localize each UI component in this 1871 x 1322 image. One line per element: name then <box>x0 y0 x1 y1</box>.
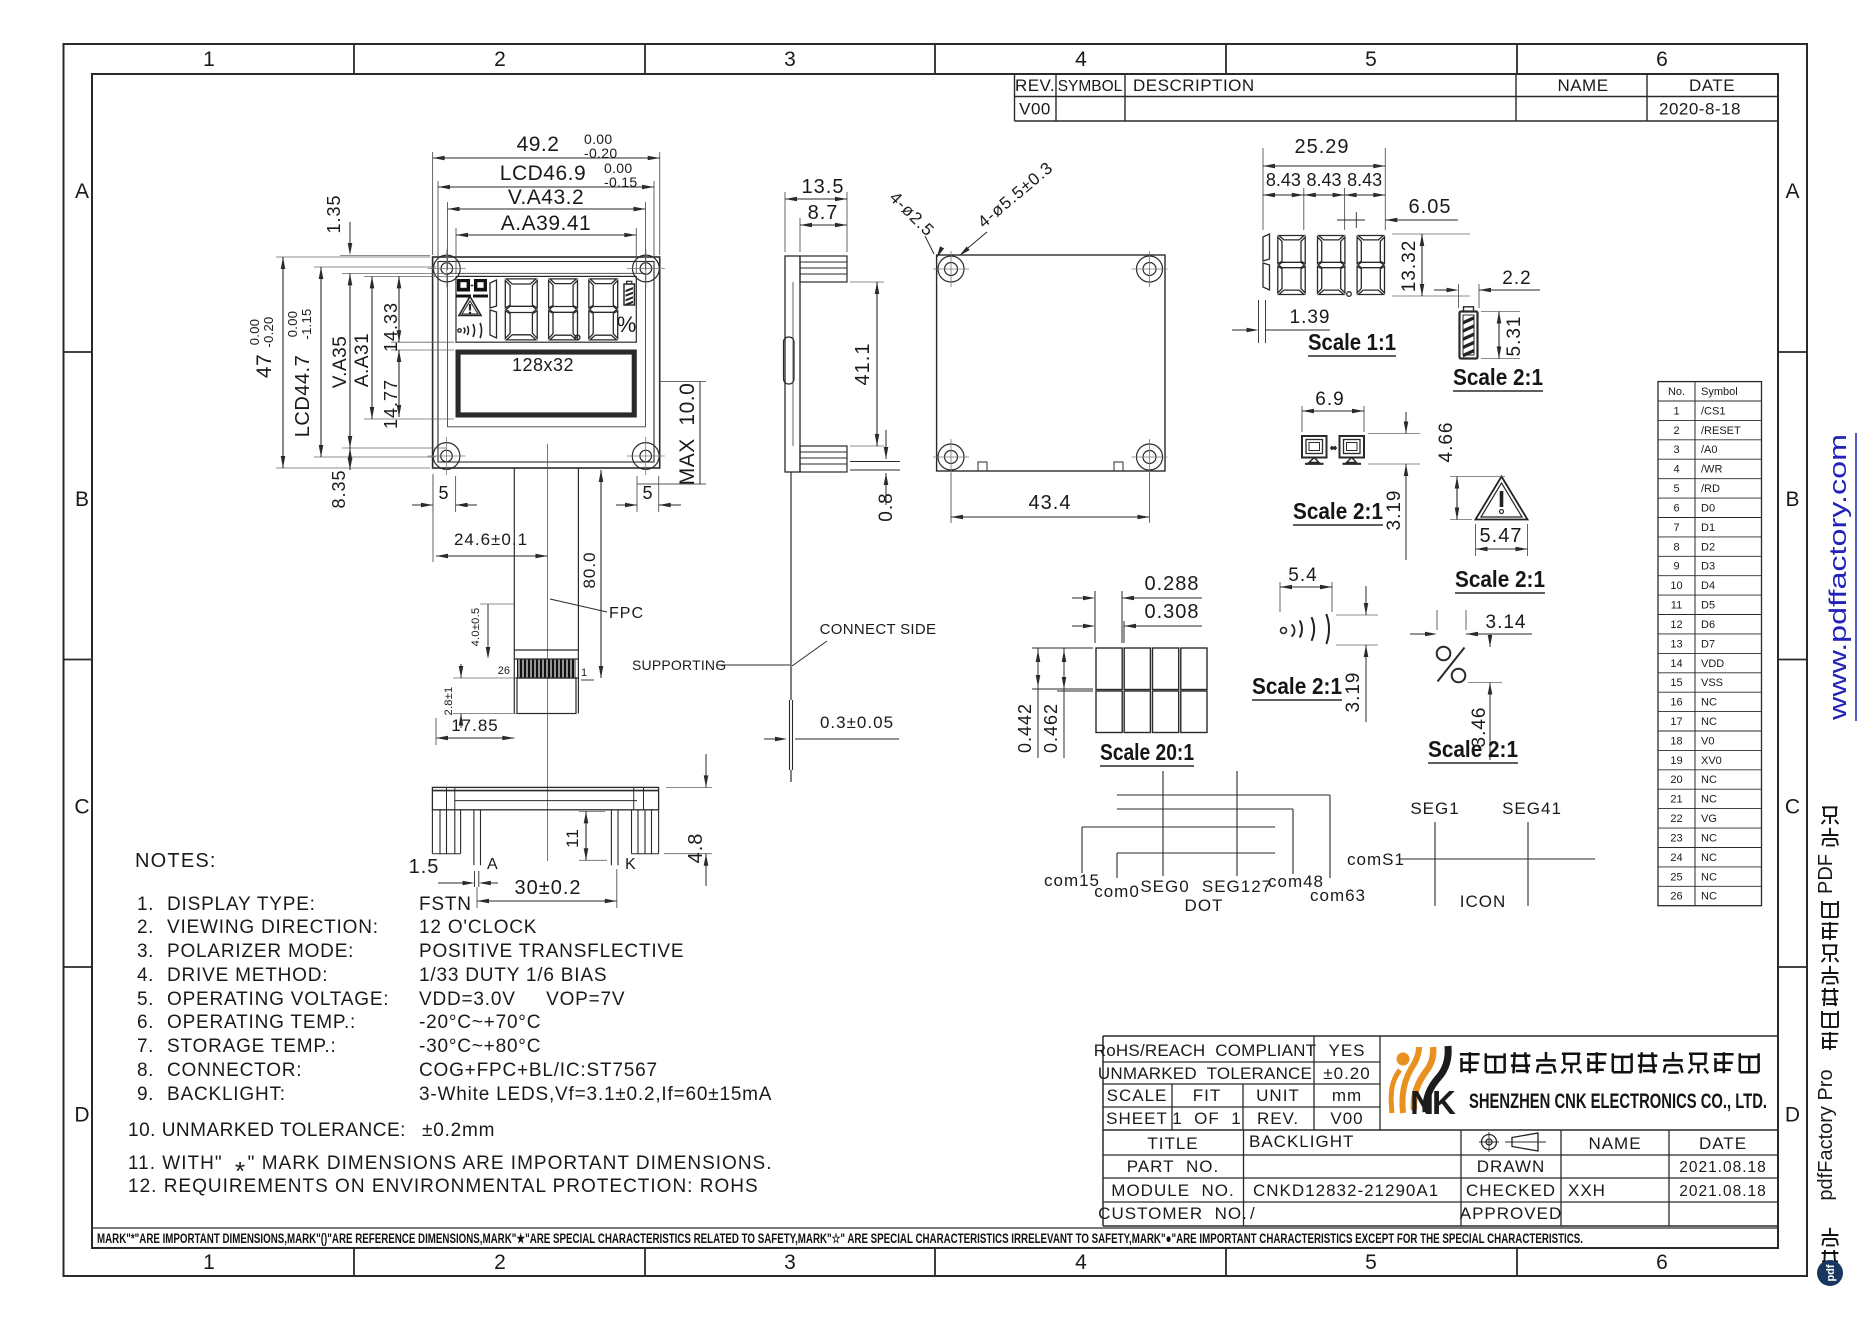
svg-text:8.43: 8.43 <box>1306 170 1341 190</box>
svg-text:SCALE: SCALE <box>1107 1086 1168 1105</box>
svg-text:DESCRIPTION: DESCRIPTION <box>1133 76 1255 95</box>
svg-text:MAX 10.0: MAX 10.0 <box>676 383 699 486</box>
svg-text:12. REQUIREMENTS ON ENVIRONMEN: 12. REQUIREMENTS ON ENVIRONMENTAL PROTEC… <box>128 1176 759 1197</box>
svg-text:19: 19 <box>1670 755 1682 767</box>
svg-text:3: 3 <box>1673 444 1679 456</box>
svg-text:0.462: 0.462 <box>1041 703 1061 753</box>
svg-text:mm: mm <box>1332 1086 1362 1105</box>
svg-text:SEG0: SEG0 <box>1140 877 1189 896</box>
svg-text:0.3±0.05: 0.3±0.05 <box>820 713 894 732</box>
svg-text:D6: D6 <box>1701 619 1715 631</box>
svg-text:-30°C~+80°C: -30°C~+80°C <box>419 1036 541 1057</box>
svg-text:10. UNMARKED TOLERANCE:: 10. UNMARKED TOLERANCE: <box>128 1120 406 1141</box>
svg-text:1.: 1. <box>137 894 154 915</box>
svg-text:pdfFactory Pro: pdfFactory Pro <box>1815 1069 1837 1200</box>
svg-text:11: 11 <box>1671 600 1682 612</box>
svg-text:6: 6 <box>1656 1251 1668 1274</box>
svg-text:pdf: pdf <box>1825 1264 1837 1281</box>
svg-text:A: A <box>75 180 89 203</box>
svg-text:VG: VG <box>1701 813 1717 825</box>
svg-text:REV.: REV. <box>1257 1109 1299 1128</box>
svg-text:SHENZHEN CNK ELECTRONICS CO.,: SHENZHEN CNK ELECTRONICS CO., LTD. <box>1469 1090 1767 1113</box>
svg-text:D: D <box>74 1103 89 1126</box>
svg-text:DRAWN: DRAWN <box>1477 1157 1546 1176</box>
svg-text:1.39: 1.39 <box>1290 307 1331 328</box>
svg-text:2021.08.18: 2021.08.18 <box>1679 1183 1767 1200</box>
svg-text:Scale 1:1: Scale 1:1 <box>1308 329 1396 355</box>
svg-text:D3: D3 <box>1701 561 1715 573</box>
svg-text:DATE: DATE <box>1699 1134 1747 1153</box>
svg-text:com15: com15 <box>1044 871 1100 890</box>
svg-text:NC: NC <box>1701 697 1717 709</box>
svg-text:NC: NC <box>1701 833 1717 845</box>
svg-text:A: A <box>487 856 498 873</box>
svg-text:9: 9 <box>1673 561 1679 573</box>
svg-text:CUSTOMER NO.: CUSTOMER NO. <box>1098 1204 1248 1223</box>
svg-text:LCD46.9: LCD46.9 <box>500 162 586 185</box>
svg-text:Scale 2:1: Scale 2:1 <box>1428 736 1518 762</box>
svg-text:NC: NC <box>1701 871 1717 883</box>
svg-text:POSITIVE TRANSFLECTIVE: POSITIVE TRANSFLECTIVE <box>419 941 684 962</box>
svg-text:11. WITH" " MARK DIMENSIONS: 11. WITH" " MARK DIMENSIONS ARE IMPORTAN… <box>128 1153 773 1174</box>
svg-text:UNMARKED TOLERANCE: UNMARKED TOLERANCE <box>1098 1064 1312 1083</box>
svg-text:9.: 9. <box>137 1084 154 1105</box>
svg-text:%: % <box>617 312 637 337</box>
svg-text:3.14: 3.14 <box>1486 612 1527 633</box>
svg-text:-20°C~+70°C: -20°C~+70°C <box>419 1012 541 1033</box>
svg-text:2: 2 <box>494 1251 506 1274</box>
svg-text:1: 1 <box>203 48 215 71</box>
svg-text:7: 7 <box>1673 522 1679 534</box>
svg-text:comS1: comS1 <box>1347 850 1405 869</box>
svg-text:V.A43.2: V.A43.2 <box>508 186 584 209</box>
svg-text:3: 3 <box>784 1251 796 1274</box>
svg-text:STORAGE TEMP.:: STORAGE TEMP.: <box>167 1036 337 1057</box>
svg-text:NC: NC <box>1701 716 1717 728</box>
svg-text:22: 22 <box>1670 813 1682 825</box>
svg-text:25: 25 <box>1670 871 1682 883</box>
svg-text:DISPLAY TYPE:: DISPLAY TYPE: <box>167 894 316 915</box>
svg-text:A.A39.41: A.A39.41 <box>501 212 591 235</box>
svg-text:2020-8-18: 2020-8-18 <box>1659 100 1741 119</box>
svg-text:OPERATING TEMP.:: OPERATING TEMP.: <box>167 1012 356 1033</box>
svg-text:2: 2 <box>1673 425 1679 437</box>
svg-text:A: A <box>1785 180 1799 203</box>
svg-text:C: C <box>74 796 89 819</box>
svg-text:49.2: 49.2 <box>517 133 560 156</box>
svg-text:6: 6 <box>1656 48 1668 71</box>
svg-text:6.: 6. <box>137 1012 154 1033</box>
svg-text:SYMBOL: SYMBOL <box>1058 78 1123 95</box>
svg-text:5: 5 <box>1673 483 1679 495</box>
svg-text:D5: D5 <box>1701 600 1715 612</box>
svg-text:D7: D7 <box>1701 638 1715 650</box>
svg-text:Scale 2:1: Scale 2:1 <box>1252 673 1342 699</box>
svg-text:TITLE: TITLE <box>1147 1134 1198 1153</box>
svg-text:41.1: 41.1 <box>852 343 874 386</box>
svg-text:SHEET: SHEET <box>1106 1109 1168 1128</box>
svg-text:-0.20: -0.20 <box>584 145 617 161</box>
svg-text:MARK"*"ARE IMPORTANT DIMENSI: MARK"*"ARE IMPORTANT DIMENSIONS,MARK"()"… <box>97 1231 1583 1246</box>
svg-text:0.288: 0.288 <box>1144 573 1199 595</box>
svg-text:BACKLIGHT:: BACKLIGHT: <box>167 1084 286 1105</box>
svg-text:NAME: NAME <box>1557 76 1608 95</box>
svg-text:47: 47 <box>253 354 276 378</box>
svg-text:30±0.2: 30±0.2 <box>514 877 581 899</box>
svg-text:CHECKED: CHECKED <box>1466 1181 1556 1200</box>
svg-text:FPC: FPC <box>609 605 644 622</box>
svg-text:NC: NC <box>1701 794 1717 806</box>
svg-text:2.: 2. <box>137 917 154 938</box>
svg-text:26: 26 <box>498 665 510 677</box>
svg-text:B: B <box>75 488 89 511</box>
svg-text:D: D <box>1785 1103 1800 1126</box>
svg-text:-1.15: -1.15 <box>299 308 314 339</box>
svg-text:VIEWING DIRECTION:: VIEWING DIRECTION: <box>167 917 379 938</box>
svg-text:4: 4 <box>1075 48 1087 71</box>
svg-text:2: 2 <box>494 48 506 71</box>
svg-text:SEG127: SEG127 <box>1202 877 1272 896</box>
svg-text:12 O'CLOCK: 12 O'CLOCK <box>419 917 537 938</box>
svg-text:3-White LEDS,Vf=3.1±0.2,If=60±: 3-White LEDS,Vf=3.1±0.2,If=60±15mA <box>419 1084 772 1105</box>
svg-text:5: 5 <box>642 483 653 503</box>
svg-text:80.0: 80.0 <box>580 551 599 588</box>
svg-text:DATE: DATE <box>1689 76 1735 95</box>
svg-text:RoHS/REACH COMPLIANT: RoHS/REACH COMPLIANT <box>1094 1041 1316 1060</box>
svg-text:0.00: 0.00 <box>285 311 300 338</box>
svg-text:A.A31: A.A31 <box>352 333 373 387</box>
svg-text:NC: NC <box>1701 852 1717 864</box>
svg-text:16: 16 <box>1670 697 1682 709</box>
svg-text:±0.20: ±0.20 <box>1323 1064 1370 1083</box>
svg-text:/RESET: /RESET <box>1701 425 1741 437</box>
svg-text:12: 12 <box>1670 619 1682 631</box>
svg-text:18: 18 <box>1670 735 1682 747</box>
svg-text:4.8: 4.8 <box>685 833 707 864</box>
svg-text:V0: V0 <box>1701 735 1714 747</box>
svg-text:com63: com63 <box>1310 886 1366 905</box>
svg-text:7.: 7. <box>137 1036 154 1057</box>
svg-text:V.A35: V.A35 <box>330 336 351 389</box>
svg-text:17: 17 <box>1670 716 1682 728</box>
svg-text:1: 1 <box>581 667 587 679</box>
svg-text:FSTN: FSTN <box>419 894 472 915</box>
svg-text:www.pdffactory.com: www.pdffactory.com <box>1825 434 1852 721</box>
svg-text:0.308: 0.308 <box>1144 601 1199 623</box>
svg-text:DOT: DOT <box>1185 896 1224 915</box>
svg-text:128x32: 128x32 <box>512 355 574 375</box>
svg-text:8.43: 8.43 <box>1347 170 1382 190</box>
svg-text:23: 23 <box>1670 833 1682 845</box>
svg-text:0.00: 0.00 <box>247 319 262 346</box>
svg-text:10: 10 <box>1670 580 1682 592</box>
svg-text:8.35: 8.35 <box>329 469 349 508</box>
svg-text:CNKD12832-21290A1: CNKD12832-21290A1 <box>1253 1181 1439 1200</box>
svg-text:15: 15 <box>1670 677 1682 689</box>
svg-text:XV0: XV0 <box>1701 755 1722 767</box>
svg-text:C: C <box>1785 796 1800 819</box>
svg-text:5: 5 <box>1365 48 1377 71</box>
svg-text:43.4: 43.4 <box>1029 492 1072 514</box>
svg-text:V00: V00 <box>1019 100 1051 119</box>
svg-text:VDD=3.0V VOP=7V: VDD=3.0V VOP=7V <box>419 989 625 1010</box>
svg-text:Scale 20:1: Scale 20:1 <box>1100 739 1194 765</box>
svg-text:XXH: XXH <box>1568 1181 1606 1200</box>
svg-text:3.19: 3.19 <box>1343 672 1364 713</box>
svg-text:6.9: 6.9 <box>1315 389 1344 410</box>
svg-text:D2: D2 <box>1701 541 1715 553</box>
svg-text:/WR: /WR <box>1701 464 1722 476</box>
svg-text:UNIT: UNIT <box>1256 1086 1300 1105</box>
svg-text:NOTES:: NOTES: <box>135 850 217 872</box>
svg-text:4.0±0.5: 4.0±0.5 <box>470 608 482 647</box>
svg-text:4: 4 <box>1075 1251 1087 1274</box>
svg-text:4.66: 4.66 <box>1436 422 1457 463</box>
svg-text:2021.08.18: 2021.08.18 <box>1679 1159 1767 1176</box>
svg-text:8.: 8. <box>137 1060 154 1081</box>
svg-text:/RD: /RD <box>1701 483 1720 495</box>
svg-text:SEG1: SEG1 <box>1410 799 1459 818</box>
svg-text:LCD44.7: LCD44.7 <box>292 355 314 437</box>
svg-text:SEG41: SEG41 <box>1502 799 1562 818</box>
svg-text:8: 8 <box>1673 541 1679 553</box>
svg-text:1 OF 1: 1 OF 1 <box>1172 1109 1241 1128</box>
svg-text:20: 20 <box>1670 774 1682 786</box>
svg-text:-0.15: -0.15 <box>604 174 637 190</box>
svg-text:*: * <box>235 1156 245 1186</box>
svg-text:13: 13 <box>1670 638 1682 650</box>
svg-text:ICON: ICON <box>1460 892 1507 911</box>
svg-text:1.35: 1.35 <box>324 194 344 233</box>
svg-text:26: 26 <box>1670 891 1682 903</box>
svg-text:SUPPORTING: SUPPORTING <box>632 657 726 673</box>
svg-text:8.43: 8.43 <box>1266 170 1301 190</box>
svg-text:/: / <box>1250 1204 1256 1223</box>
svg-text:5.31: 5.31 <box>1504 316 1525 357</box>
svg-text:OPERATING VOLTAGE:: OPERATING VOLTAGE: <box>167 989 389 1010</box>
svg-text:14.77: 14.77 <box>381 379 401 429</box>
svg-text:D4: D4 <box>1701 580 1715 592</box>
svg-text:0.8: 0.8 <box>876 492 897 521</box>
svg-text:25.29: 25.29 <box>1294 136 1349 158</box>
svg-text:2.8±1: 2.8±1 <box>443 687 455 716</box>
svg-text:V00: V00 <box>1330 1109 1363 1128</box>
svg-text:1: 1 <box>203 1251 215 1274</box>
svg-text:B: B <box>1785 488 1799 511</box>
svg-text:Symbol: Symbol <box>1701 386 1738 398</box>
svg-text:1/33 DUTY 1/6 BIAS: 1/33 DUTY 1/6 BIAS <box>419 965 607 986</box>
svg-text:21: 21 <box>1670 794 1682 806</box>
svg-text:NAME: NAME <box>1588 1134 1641 1153</box>
svg-text:Scale 2:1: Scale 2:1 <box>1293 498 1383 524</box>
svg-text:YES: YES <box>1328 1041 1365 1060</box>
svg-text:5: 5 <box>1365 1251 1377 1274</box>
svg-text:NC: NC <box>1701 891 1717 903</box>
svg-text:D1: D1 <box>1701 522 1715 534</box>
svg-text:Scale 2:1: Scale 2:1 <box>1453 364 1543 390</box>
svg-text:1.5: 1.5 <box>409 856 440 878</box>
svg-text:2.2: 2.2 <box>1502 268 1531 289</box>
svg-text:8.7: 8.7 <box>808 202 839 224</box>
svg-text:-0.20: -0.20 <box>261 316 276 347</box>
svg-text:COG+FPC+BL/IC:ST7567: COG+FPC+BL/IC:ST7567 <box>419 1060 658 1081</box>
svg-text:6.05: 6.05 <box>1409 196 1452 218</box>
svg-text:3.: 3. <box>137 941 154 962</box>
svg-text:DRIVE METHOD:: DRIVE METHOD: <box>167 965 328 986</box>
svg-text:14: 14 <box>1670 658 1682 670</box>
svg-text:PDF: PDF <box>1815 854 1837 894</box>
svg-text:1: 1 <box>1673 405 1679 417</box>
svg-text:NC: NC <box>1701 774 1717 786</box>
svg-text:5.: 5. <box>137 989 154 1010</box>
svg-text:D0: D0 <box>1701 503 1715 515</box>
svg-text:4.: 4. <box>137 965 154 986</box>
svg-text:5.47: 5.47 <box>1480 525 1523 547</box>
svg-text:PART NO.: PART NO. <box>1127 1157 1219 1176</box>
svg-text:MODULE NO.: MODULE NO. <box>1111 1181 1234 1200</box>
svg-text:/CS1: /CS1 <box>1701 405 1725 417</box>
svg-text:Scale 2:1: Scale 2:1 <box>1455 566 1545 592</box>
svg-text:VSS: VSS <box>1701 677 1723 689</box>
svg-text:0.442: 0.442 <box>1015 703 1035 753</box>
svg-text:4: 4 <box>1673 464 1679 476</box>
svg-text:BACKLIGHT: BACKLIGHT <box>1249 1132 1354 1151</box>
svg-text:K: K <box>625 856 636 873</box>
svg-text:5: 5 <box>438 483 449 503</box>
svg-text:No.: No. <box>1668 386 1685 398</box>
svg-text:24.6±0.1: 24.6±0.1 <box>454 530 528 549</box>
svg-text:3.19: 3.19 <box>1384 490 1405 531</box>
svg-text:6: 6 <box>1673 503 1679 515</box>
svg-text:com0: com0 <box>1094 882 1140 901</box>
svg-text:±0.2mm: ±0.2mm <box>422 1120 495 1141</box>
svg-text:14.33: 14.33 <box>381 302 401 352</box>
svg-text:13.32: 13.32 <box>1399 240 1420 293</box>
svg-text:FIT: FIT <box>1193 1086 1222 1105</box>
svg-text:CONNECTOR:: CONNECTOR: <box>167 1060 302 1081</box>
svg-text:POLARIZER MODE:: POLARIZER MODE: <box>167 941 354 962</box>
svg-text:APPROVED: APPROVED <box>1460 1204 1562 1223</box>
svg-text:24: 24 <box>1670 852 1682 864</box>
svg-text:/A0: /A0 <box>1701 444 1718 456</box>
svg-text:VDD: VDD <box>1701 658 1724 670</box>
svg-text:17.85: 17.85 <box>451 716 499 735</box>
svg-text:13.5: 13.5 <box>802 176 845 198</box>
svg-text:CONNECT SIDE: CONNECT SIDE <box>820 621 937 638</box>
svg-text:REV.: REV. <box>1015 76 1055 95</box>
svg-text:11: 11 <box>563 828 582 848</box>
svg-text:3: 3 <box>784 48 796 71</box>
svg-text:NK: NK <box>1410 1084 1456 1121</box>
svg-text:5.4: 5.4 <box>1288 565 1317 586</box>
